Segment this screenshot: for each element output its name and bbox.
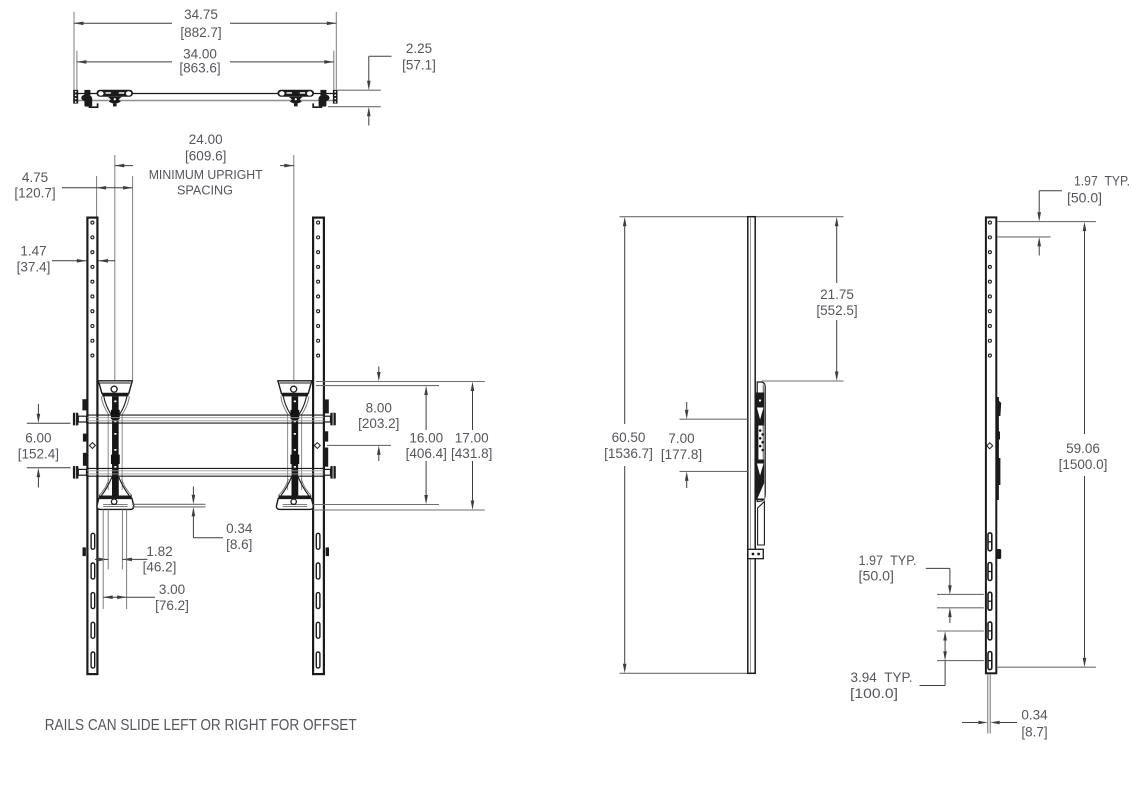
dimension 3.94 TYP — [850, 631, 947, 701]
front view extension lines 3.00 — [103, 510, 126, 610]
front view reference line 17.00 top — [316, 381, 485, 383]
right view 59.06 bottom extension line — [997, 666, 1096, 668]
svg-text:0.34: 0.34 — [1021, 708, 1048, 723]
front view extension line B (24.00 left) — [114, 155, 116, 380]
dimension 1.82 [46.2] — [95, 544, 176, 575]
front view right upright diamond hole — [314, 443, 320, 449]
svg-text:7.00: 7.00 — [668, 431, 694, 446]
svg-text:1.47: 1.47 — [20, 244, 46, 259]
dimension 0.34 [8.7] — [962, 708, 1048, 740]
dimension 2.25 [57.1] — [367, 41, 436, 126]
dimension 17.00 [431.8] — [451, 382, 492, 511]
svg-text:[100.0]: [100.0] — [850, 686, 898, 701]
dimension 1.97 TYP top — [1037, 173, 1130, 255]
svg-text:2.25: 2.25 — [406, 41, 432, 56]
svg-text:[863.6]: [863.6] — [179, 61, 220, 76]
note text — [45, 717, 357, 734]
svg-text:3.00: 3.00 — [159, 582, 185, 597]
dimension 1.47 [37.4] — [17, 244, 115, 275]
top view extension line far-left (34.75) — [73, 12, 75, 90]
front view upper rail right bolt — [324, 413, 336, 426]
front view left upright — [87, 218, 97, 674]
dimension 1.97 TYP bottom — [859, 553, 952, 623]
svg-text:[37.4]: [37.4] — [17, 259, 51, 274]
top view right end cap — [333, 90, 338, 104]
dimension 16.00 [406.4] — [406, 386, 447, 505]
side view 21.75 lower extension line — [762, 380, 844, 382]
side view bracket hardware — [756, 385, 765, 501]
front view reference line 8.00 bottom — [327, 444, 391, 446]
front view lower rail right bolt — [324, 466, 336, 479]
svg-text:60.50: 60.50 — [612, 430, 646, 445]
front view extension line D (24.00 right) — [293, 155, 295, 380]
front view upper rail left bolt — [73, 413, 87, 426]
svg-text:[76.2]: [76.2] — [155, 598, 189, 613]
front view extension line C (4.75 right) — [132, 176, 134, 380]
front view right upright lower tab — [326, 547, 329, 556]
top view extension line right (34.00) — [333, 51, 335, 90]
dimension 21.75 [552.5] — [816, 217, 857, 381]
dimension 3.00 [76.2] — [103, 582, 189, 613]
right view edge hardware — [997, 397, 1001, 500]
right view bar holes — [988, 221, 991, 357]
front view lower rail — [86, 468, 325, 476]
svg-text:4.75: 4.75 — [22, 170, 48, 185]
dimension 34.75 [882.7] — [74, 7, 336, 40]
front view reference line 16.00 top — [316, 385, 439, 387]
top view rail top edge — [78, 93, 334, 95]
svg-text:[552.5]: [552.5] — [816, 303, 857, 318]
svg-text:[1500.0]: [1500.0] — [1059, 457, 1108, 472]
dimension 60.50 [1536.7] — [604, 217, 653, 674]
front view 0.34 reference lines — [132, 504, 206, 507]
front view extension line A (4.75 left) — [96, 176, 98, 217]
front view left upright lower tab — [83, 547, 86, 556]
side view bracket profile — [757, 382, 765, 502]
right view 1.97 top extension lines — [997, 222, 1096, 237]
svg-text:0.34: 0.34 — [226, 521, 253, 536]
front view right upright holes — [317, 221, 320, 357]
svg-text:6.00: 6.00 — [25, 431, 51, 446]
svg-text:[50.0]: [50.0] — [859, 569, 895, 584]
svg-text:1.97 TYP.: 1.97 TYP. — [1074, 173, 1130, 188]
top view left clamp hardware — [81, 90, 97, 107]
svg-text:[46.2]: [46.2] — [143, 560, 177, 575]
dimension 0.34 [8.6] — [192, 487, 253, 552]
dimension 4.75 [120.7] — [14, 170, 132, 201]
svg-text:[152.4]: [152.4] — [18, 446, 59, 461]
svg-text:SPACING: SPACING — [177, 183, 233, 197]
top view left end cap — [73, 90, 78, 104]
front view right upright — [313, 218, 324, 674]
top view right wide bracket — [278, 90, 315, 107]
svg-text:21.75: 21.75 — [820, 287, 854, 302]
svg-text:34.75: 34.75 — [184, 7, 218, 22]
front view upper rail — [86, 415, 325, 423]
side view lower plate — [758, 502, 765, 546]
front view reference line 16.00 bottom — [313, 504, 439, 506]
svg-text:[203.2]: [203.2] — [358, 416, 399, 431]
top view extension line far-right (34.75) — [335, 12, 337, 90]
right view 1.97 bottom extension lines — [937, 594, 984, 607]
svg-text:16.00: 16.00 — [409, 430, 443, 445]
svg-text:[8.7]: [8.7] — [1021, 724, 1047, 739]
svg-text:24.00: 24.00 — [189, 132, 223, 147]
right view bottom thin lines — [988, 674, 990, 733]
front view right upright slots — [316, 533, 320, 668]
side view top extension line — [620, 216, 844, 218]
dimension 7.00 [177.8] — [661, 402, 702, 488]
right view diamond hole — [987, 443, 993, 449]
front view left upright slots — [91, 533, 95, 668]
svg-text:[57.1]: [57.1] — [402, 58, 436, 73]
svg-text:17.00: 17.00 — [455, 430, 489, 445]
right view foot tab — [997, 549, 1002, 559]
side view foot bracket — [748, 549, 763, 558]
front view right TV bracket — [276, 381, 313, 510]
svg-text:[120.7]: [120.7] — [14, 186, 55, 201]
top view right clamp hardware — [313, 90, 329, 107]
front view left upright holes — [91, 221, 94, 357]
svg-text:[431.8]: [431.8] — [451, 446, 492, 461]
svg-text:MINIMUM UPRIGHT: MINIMUM UPRIGHT — [149, 168, 263, 182]
svg-text:8.00: 8.00 — [366, 400, 392, 415]
svg-text:[1536.7]: [1536.7] — [604, 446, 653, 461]
front view lower rail left bolt — [73, 466, 87, 479]
top view extension line left (34.00) — [76, 51, 78, 90]
top view 2.25 reference line lower — [328, 106, 381, 108]
svg-text:[8.6]: [8.6] — [226, 537, 252, 552]
front view right upright edge hardware — [325, 399, 329, 466]
top view left wide bracket — [97, 90, 134, 107]
front view reference line 17.00 bottom — [313, 509, 485, 511]
front view extension lines 1.82 — [108, 510, 122, 570]
top view 2.25 reference line upper — [337, 89, 380, 91]
side view panel bar — [748, 217, 755, 674]
svg-text:34.00: 34.00 — [183, 46, 217, 61]
top view rail bottom edge — [78, 100, 334, 102]
right view 3.94 extension lines — [937, 631, 984, 661]
svg-text:1.82: 1.82 — [146, 544, 172, 559]
side view 7.00 extension lines — [680, 419, 748, 471]
dimension 34.00 [863.6] — [77, 46, 334, 75]
dimension 24.00 [609.6] minimum upright spacing — [115, 132, 294, 197]
dimension 8.00 [203.2] — [358, 367, 399, 462]
dimension 6.00 [152.4] — [18, 404, 71, 488]
svg-text:[50.0]: [50.0] — [1067, 191, 1102, 206]
svg-text:RAILS CAN SLIDE LEFT OR RIGHT: RAILS CAN SLIDE LEFT OR RIGHT FOR OFFSET — [45, 717, 357, 734]
svg-text:[882.7]: [882.7] — [180, 25, 221, 40]
front view left upright diamond hole — [89, 443, 95, 449]
front view left upright edge hardware — [82, 399, 86, 466]
svg-text:1.97 TYP.: 1.97 TYP. — [859, 553, 917, 568]
side view bottom extension line — [620, 672, 748, 674]
right view upright bar — [986, 217, 996, 673]
svg-text:[609.6]: [609.6] — [185, 148, 226, 163]
svg-text:[406.4]: [406.4] — [406, 446, 447, 461]
svg-text:[177.8]: [177.8] — [661, 447, 702, 462]
front view left TV bracket — [97, 381, 134, 510]
svg-text:3.94 TYP.: 3.94 TYP. — [851, 670, 913, 685]
right view slot groups — [988, 533, 993, 670]
dimension 59.06 [1500.0] — [1059, 222, 1108, 668]
svg-text:59.06: 59.06 — [1066, 441, 1100, 456]
